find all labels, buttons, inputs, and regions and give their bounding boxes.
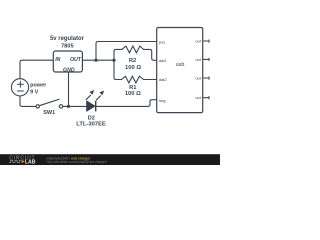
wire battery bottom to switch <box>20 96 36 107</box>
svg-text:neg: neg <box>159 98 166 103</box>
node C junction dot (GND to bottom rail) <box>67 105 70 108</box>
svg-text:LAB: LAB <box>25 160 36 166</box>
voltage source V1 power 9V <box>11 79 28 96</box>
wire regulator OUT to node B <box>82 59 114 61</box>
svg-text:GND: GND <box>63 67 75 73</box>
circuitlab logo <box>9 155 36 165</box>
resistor R1 <box>122 76 144 83</box>
svg-text:R2: R2 <box>129 58 136 64</box>
LED D2 <box>86 90 104 111</box>
svg-text:out: out <box>195 57 201 62</box>
wire resistor left bracket <box>114 49 122 79</box>
svg-text:pos: pos <box>159 39 165 44</box>
svg-text:D2: D2 <box>88 115 95 121</box>
svg-text:100 Ω: 100 Ω <box>125 91 141 97</box>
wire LED to neg <box>96 100 157 107</box>
regulator U2 box 7805 <box>53 51 82 72</box>
svg-text:5v regulator: 5v regulator <box>50 36 85 42</box>
watermark bar <box>0 154 220 165</box>
IC usb connector box <box>157 28 203 113</box>
svg-text:http://circuitlab.com/c/phq54j: http://circuitlab.com/c/phq54j/usb-charg… <box>47 160 108 164</box>
svg-text:usb: usb <box>176 62 185 68</box>
svg-text:power: power <box>30 83 47 89</box>
out pin stubs <box>203 40 209 42</box>
svg-text:out: out <box>195 39 201 44</box>
wire node A up to pos rail <box>96 42 157 61</box>
switch SW1 <box>36 99 63 108</box>
wire battery top to regulator IN <box>20 60 53 79</box>
svg-text:100 Ω: 100 Ω <box>125 65 141 71</box>
svg-text:dat2: dat2 <box>159 77 168 82</box>
svg-text:SW1: SW1 <box>43 110 55 116</box>
svg-text:out: out <box>195 95 201 100</box>
svg-text:IN: IN <box>55 57 60 63</box>
svg-text:9 V: 9 V <box>30 89 39 95</box>
svg-text:LTL-307EE: LTL-307EE <box>76 122 106 128</box>
labels <box>30 36 202 127</box>
wire R2 to dat1 <box>144 49 157 60</box>
resistor R2 <box>122 46 144 53</box>
wire R1 to dat2 <box>144 79 157 81</box>
wire regulator GND down <box>68 72 70 106</box>
svg-text:dat1: dat1 <box>159 58 168 63</box>
svg-text:out: out <box>195 76 201 81</box>
node A junction dot <box>94 59 97 62</box>
node B junction dot <box>112 59 115 62</box>
watermark text <box>47 156 108 164</box>
svg-text:7805: 7805 <box>61 43 74 49</box>
wire switch to LED <box>63 105 87 107</box>
svg-text:OUT: OUT <box>70 57 82 63</box>
